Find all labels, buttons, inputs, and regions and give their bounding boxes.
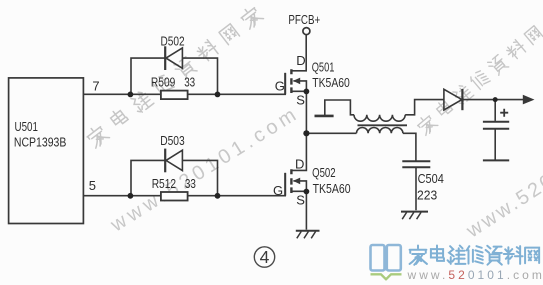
wire Q501 body-diode and source leads (291, 81, 306, 170)
svg-text:33: 33 (184, 75, 195, 90)
wire jog from stub to secondary winding (325, 100, 354, 116)
node junction dot Q502 source (304, 189, 310, 195)
transistor Q502 MOSFET symbol (285, 169, 300, 195)
logo hanzi text (410, 246, 540, 265)
logo book icon (371, 245, 402, 279)
svg-text:D503: D503 (160, 133, 185, 148)
svg-text:D502: D502 (161, 34, 185, 49)
svg-text:D: D (296, 53, 305, 68)
wire output capacitor top lead (494, 100, 496, 160)
diode D502 (165, 46, 182, 70)
node stub bar at transformer jog (315, 115, 334, 118)
svg-text:Q502: Q502 (312, 165, 336, 180)
transistor Q501 MOSFET symbol (285, 69, 300, 94)
wire output diode cathode to output arrow (463, 99, 524, 101)
svg-text:www.520101.com: www.520101.com (407, 268, 543, 282)
svg-text:S: S (296, 92, 305, 107)
wire pin5 to gate of Q502 (net LG) (83, 173, 285, 196)
svg-text:4: 4 (260, 247, 270, 267)
figure number circled 4 (254, 247, 274, 267)
svg-text:G: G (275, 79, 285, 94)
wire pin7 to gate of Q501 (net HG) (83, 73, 285, 94)
diode D503 (165, 149, 182, 173)
svg-text:223: 223 (417, 188, 437, 203)
terminal PFCB+ open circle (303, 28, 310, 35)
wire secondary winding to output diode (405, 100, 444, 115)
node junction dot pin7/branch right (215, 92, 221, 98)
wire D502/R509 parallel branch loop (131, 58, 218, 94)
svg-text:R512: R512 (152, 176, 176, 191)
svg-text:7: 7 (92, 78, 99, 93)
watermark band A hanzi (85, 123, 110, 149)
node junction dot Q501 source (304, 89, 310, 95)
svg-text:C504: C504 (418, 171, 444, 186)
wire D503/R512 parallel branch loop (131, 160, 218, 195)
svg-text:U501: U501 (15, 119, 38, 134)
wire C504 bottom lead (415, 167, 417, 210)
svg-text:www.520101.com: www.520101.com (462, 116, 543, 242)
inductor T501 primary winding (bottom) (357, 128, 403, 134)
wire Q502 body-diode and source leads (291, 181, 306, 230)
wire primary winding to C504 (403, 133, 416, 161)
node half-bridge midpoint junction (303, 130, 309, 136)
diode D5xx output rectifier (444, 89, 463, 110)
svg-text:Q501: Q501 (312, 60, 335, 75)
polarity plus sign of output capacitor (500, 109, 508, 117)
svg-text:NCP1393B: NCP1393B (14, 134, 67, 149)
svg-text:5: 5 (89, 178, 96, 193)
node junction dot pin5/branch right (215, 193, 221, 199)
resistor R512 (161, 192, 188, 201)
ground at Q502 source (296, 231, 320, 239)
svg-text:R509: R509 (151, 75, 175, 90)
svg-text:S: S (296, 192, 305, 207)
svg-text:TK5A60: TK5A60 (312, 75, 350, 90)
output arrowhead (523, 95, 535, 105)
svg-text:PFCB+: PFCB+ (288, 12, 320, 27)
watermark band C hanzi (415, 26, 543, 136)
inductor T501 secondary winding (top) (354, 115, 405, 121)
resistor R509 (161, 91, 188, 100)
node junction dot output rail (493, 97, 498, 102)
capacitor output electrolytic plates (483, 122, 509, 161)
svg-text:G: G (273, 183, 283, 198)
node junction dot pin5/branch left (127, 193, 133, 199)
node junction dot pin7/branch left (127, 92, 133, 98)
svg-text:www.520101.com: www.520101.com (106, 102, 303, 237)
wire PFCB+ terminal to drain of Q501 (291, 35, 306, 71)
svg-text:TK5A60: TK5A60 (313, 181, 351, 196)
wire half-bridge midpoint to transformer primary (306, 132, 356, 134)
ground at C504 (401, 212, 428, 220)
op-amp U501 controller IC box (9, 78, 84, 224)
svg-text:D: D (295, 157, 304, 172)
transformer T501 core line (358, 124, 408, 126)
svg-text:33: 33 (185, 176, 196, 191)
capacitor C504 plates (402, 161, 430, 167)
